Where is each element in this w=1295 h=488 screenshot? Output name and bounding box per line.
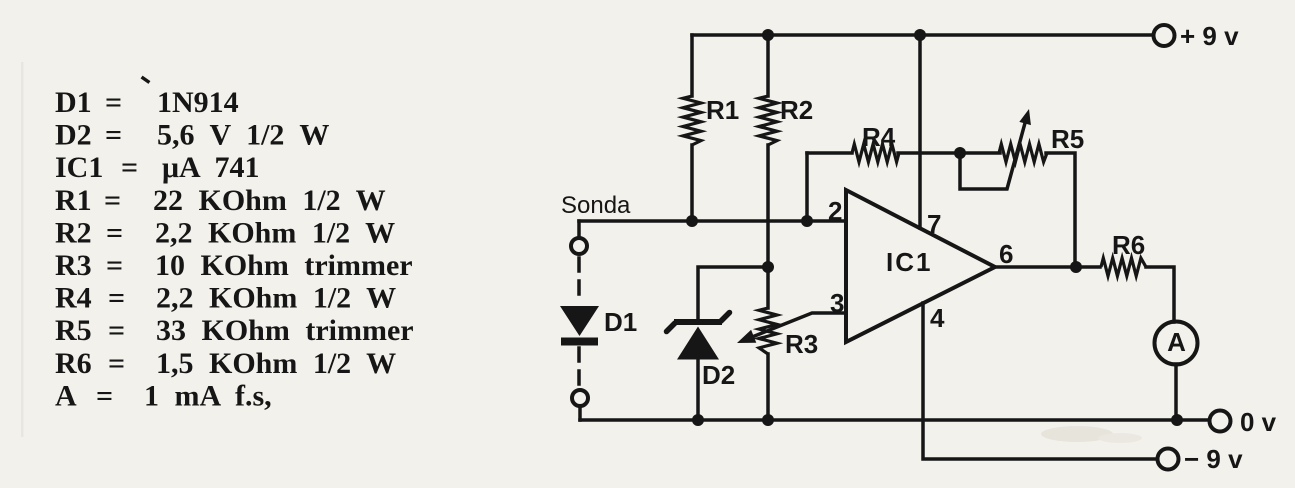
svg-text:A: A	[1167, 327, 1186, 357]
wire pin7	[918, 35, 922, 228]
diode D1	[560, 306, 599, 336]
node output	[1070, 261, 1082, 273]
op-amp IC1	[846, 190, 995, 342]
node R5 left	[954, 147, 966, 159]
terminal 0v	[1210, 411, 1231, 432]
R3 wiper arrow from pin 3	[750, 313, 846, 338]
svg-text:R3: R3	[785, 329, 818, 359]
resistor R1	[683, 96, 701, 145]
terminal sonda bottom	[572, 390, 588, 406]
wire R4 branch vertical	[805, 153, 809, 221]
node D2 branch	[762, 261, 774, 273]
node R1-sonda	[686, 215, 698, 227]
svg-text:4: 4	[930, 303, 945, 333]
meter A	[1155, 322, 1198, 365]
svg-text:R6: R6	[1112, 230, 1145, 260]
wire bottom 0v rail	[580, 418, 1209, 422]
wire meter to rail	[1174, 364, 1178, 420]
wire D2 branch	[698, 267, 768, 318]
wire R2 down through sonda wire	[766, 145, 770, 308]
svg-text:R2: R2	[780, 95, 813, 125]
node pin7 rail	[914, 29, 926, 41]
wire D2 to bottom rail	[696, 359, 700, 420]
wire pin4 to -9v	[923, 303, 1157, 459]
resistor R4	[852, 144, 899, 162]
svg-text:R3=10 KOhm trimmer: R3=10 KOhm trimmer	[55, 249, 413, 282]
svg-text:0 v: 0 v	[1240, 407, 1277, 437]
terminal -9v	[1158, 449, 1179, 470]
resistor R5 (trimmer)	[999, 144, 1047, 162]
R5 wiper loop	[960, 123, 1025, 189]
svg-text:D2: D2	[702, 360, 735, 390]
wire R3 to bottom rail	[766, 354, 770, 420]
node R2 top	[762, 29, 774, 41]
wire top +9v rail	[692, 33, 1153, 37]
svg-text:6: 6	[999, 239, 1013, 269]
wire sonda horizontal	[579, 219, 846, 223]
wire to R5	[898, 151, 1000, 155]
wire R1 branch	[690, 35, 694, 96]
resistor R3 (trimmer)	[759, 308, 777, 354]
probe dashed link lower	[577, 348, 581, 388]
zener D2	[667, 313, 730, 360]
svg-text:R4: R4	[862, 122, 896, 152]
wire R4 horizontal	[807, 151, 852, 155]
svg-text:Sonda: Sonda	[561, 192, 631, 219]
svg-text:− 9 v: − 9 v	[1184, 444, 1243, 474]
resistor R2	[759, 96, 777, 145]
node R3 bottom	[762, 414, 774, 426]
svg-text:R1=22 KOhm 1/2 W: R1=22 KOhm 1/2 W	[55, 184, 386, 217]
wire R6 to meter	[1146, 267, 1174, 322]
svg-text:R5: R5	[1051, 124, 1084, 154]
stray accent mark	[143, 78, 148, 82]
svg-text:+ 9 v: + 9 v	[1180, 21, 1239, 51]
svg-text:IC1: IC1	[886, 247, 932, 277]
node D2 bottom	[692, 414, 704, 426]
svg-text:D1: D1	[604, 307, 637, 337]
wire R2 branch	[766, 35, 770, 96]
node R4 branch on sonda wire	[801, 215, 813, 227]
resistor R6	[1101, 258, 1146, 276]
svg-text:2: 2	[828, 196, 842, 226]
terminal sonda top	[577, 221, 581, 238]
svg-text:R1: R1	[706, 95, 739, 125]
svg-text:R5=33 KOhm trimmer: R5=33 KOhm trimmer	[55, 314, 414, 347]
svg-text:R2=2,2 KOhm 1/2 W: R2=2,2 KOhm 1/2 W	[55, 216, 395, 249]
wire to bottom rail	[578, 406, 582, 420]
parts list	[55, 86, 414, 412]
probe dashed link upper	[577, 258, 581, 302]
terminal +9v	[1154, 25, 1175, 46]
wire pin6 output	[995, 265, 1100, 269]
node meter-rail	[1171, 414, 1183, 426]
wire R5 right down	[1046, 153, 1075, 267]
svg-text:3: 3	[830, 288, 844, 318]
wire	[690, 145, 694, 221]
